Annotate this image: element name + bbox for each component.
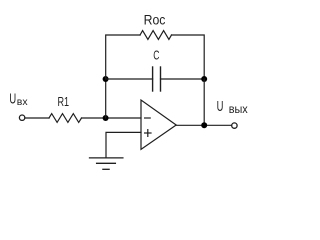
node: output junction (201, 122, 207, 128)
capacitor C (152, 67, 154, 91)
svg-text:Roc: Roc (144, 11, 166, 27)
ground (90, 158, 123, 169)
terminal: input U_vx (19, 115, 24, 120)
svg-text:R1: R1 (58, 95, 70, 109)
node: left C-branch junction (103, 76, 109, 82)
wire: R1 to op-amp inverting input (82, 117, 142, 119)
node: right C-branch junction (201, 76, 207, 82)
wire: non-inverting input to ground (106, 132, 141, 157)
wire: C branch left segment (106, 78, 153, 80)
svg-text:C: C (153, 48, 159, 62)
wire: Roc right segment down to right C-branch junction (172, 35, 205, 79)
terminal: output U_vyx (232, 123, 237, 128)
svg-text:вых: вых (229, 104, 248, 116)
wire: left vertical up to Roc branch and left Roc segment (106, 35, 140, 79)
svg-text:вх: вх (17, 97, 28, 108)
node: summing junction (103, 115, 109, 121)
wire: right vertical down to output node (203, 79, 205, 125)
svg-text:U: U (217, 98, 224, 115)
wire: op-amp output to terminal (176, 124, 231, 126)
op-amp U1 (141, 100, 176, 149)
wire: input terminal to R1 (25, 117, 49, 119)
resistor Roc (140, 31, 172, 40)
resistor R1 (49, 114, 82, 123)
wire: summing node up to C-branch junction (105, 79, 107, 118)
label U_vyx (217, 98, 248, 116)
svg-text:U: U (9, 90, 16, 107)
wire: C branch right segment (161, 78, 205, 80)
label U_vx (9, 90, 27, 108)
